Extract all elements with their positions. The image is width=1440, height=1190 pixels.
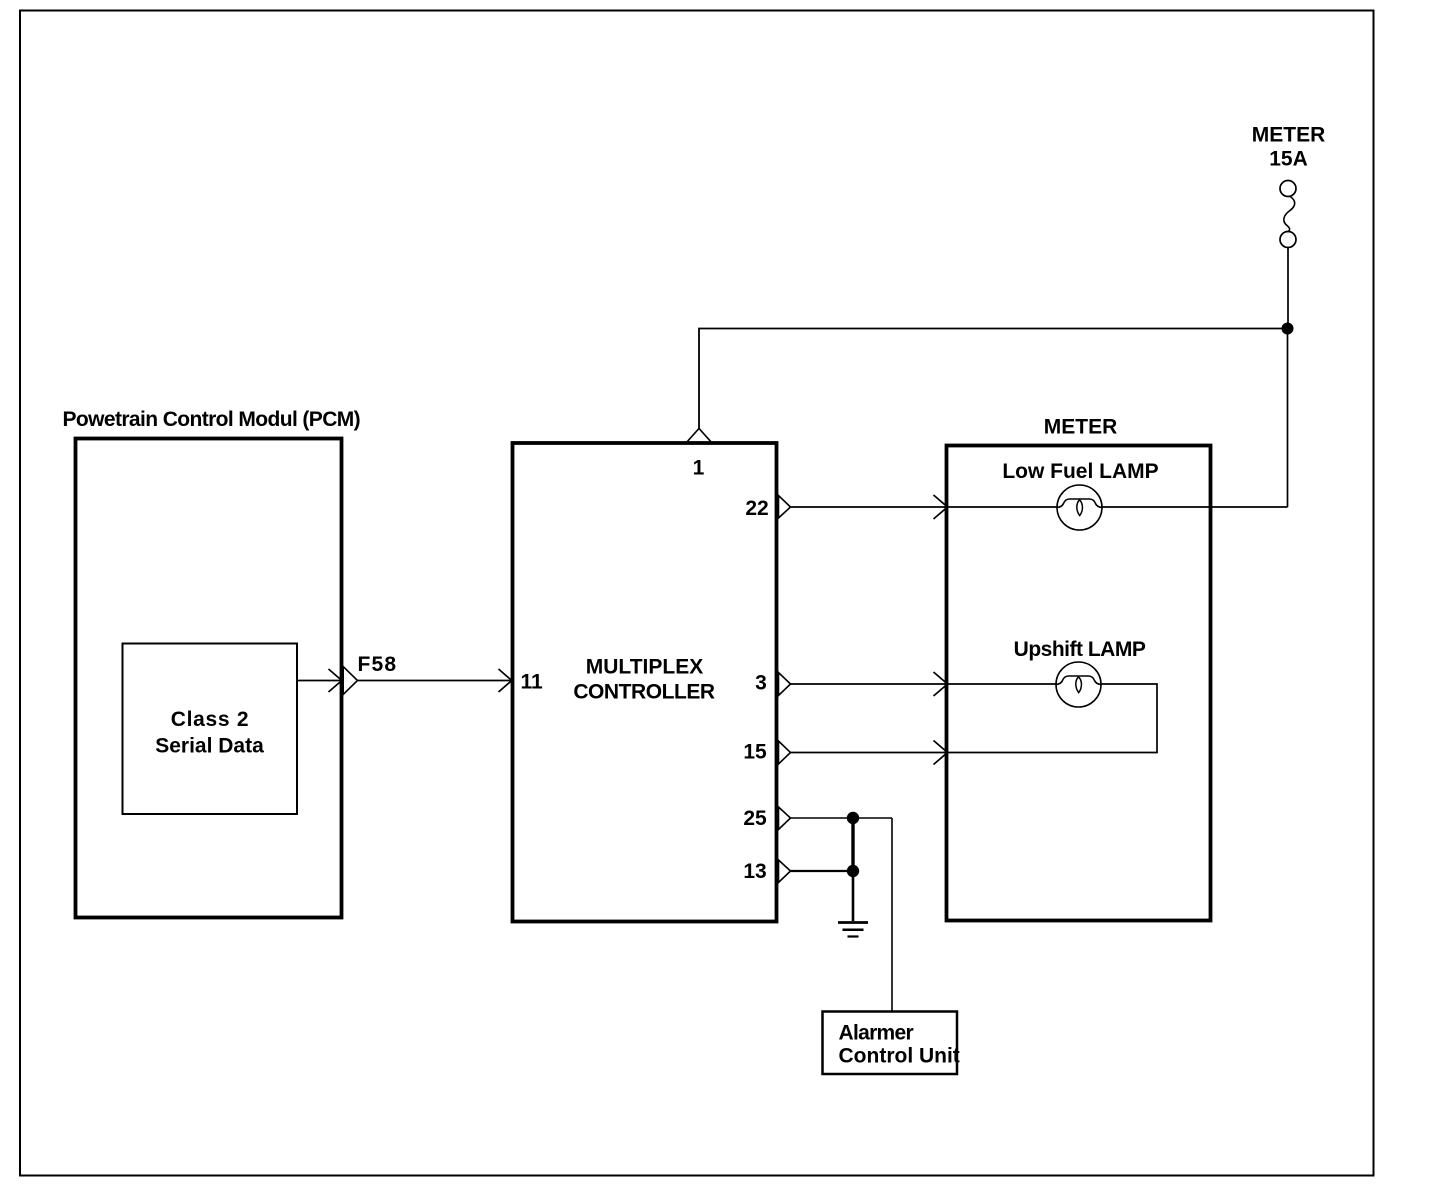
svg-text:15A: 15A <box>1269 148 1308 171</box>
box Alarmer Control Unit <box>823 1012 960 1075</box>
junction dot at fuse wire <box>1282 323 1294 335</box>
arrowhead at PCM right edge <box>329 669 342 692</box>
box: Class 2 Serial Data <box>123 644 298 815</box>
svg-text:F58: F58 <box>358 653 398 676</box>
svg-text:25: 25 <box>743 807 767 830</box>
svg-text:Serial Data: Serial Data <box>155 735 264 758</box>
svg-text:15: 15 <box>743 741 767 764</box>
fuse METER 15A symbol <box>1280 181 1296 248</box>
svg-text:3: 3 <box>755 672 767 695</box>
svg-text:Alarmer: Alarmer <box>839 1022 914 1045</box>
svg-text:METER: METER <box>1044 416 1118 439</box>
wire: upshift lamp loop back to pin 15 <box>948 684 1158 753</box>
svg-text:Powetrain Control Modul (PCM): Powetrain Control Modul (PCM) <box>63 408 361 431</box>
svg-text:MULTIPLEX: MULTIPLEX <box>586 656 703 679</box>
pin 25 connector chevron <box>779 807 791 830</box>
arrowhead at METER edge (low fuel) <box>934 495 948 519</box>
lamp: Upshift LAMP <box>1056 662 1101 707</box>
svg-text:22: 22 <box>745 497 768 520</box>
svg-text:13: 13 <box>743 860 766 883</box>
arrowhead at METER edge (pin 15) <box>934 741 948 765</box>
svg-text:1: 1 <box>693 457 705 480</box>
svg-text:11: 11 <box>521 671 544 694</box>
wire: METER edge to low fuel lamp <box>948 506 1058 508</box>
wire: junction down to low fuel lamp feed <box>1287 329 1289 508</box>
wire: pin 22 to METER low fuel lamp <box>791 506 947 508</box>
pin 15 connector chevron <box>779 741 791 764</box>
wire: pin 25 net down to alarmer control unit <box>891 818 893 1011</box>
wire: low fuel lamp to fuse junction drop <box>1102 506 1288 508</box>
wire: F58 to multiplex controller pin 11 <box>358 680 512 682</box>
ground symbol <box>838 923 868 937</box>
fuse label METER 15A <box>1252 124 1326 171</box>
wire: pin 25 to alarmer drop <box>791 817 893 819</box>
svg-text:Low Fuel LAMP: Low Fuel LAMP <box>1002 460 1158 483</box>
svg-text:METER: METER <box>1252 124 1326 147</box>
svg-text:Control Unit: Control Unit <box>839 1045 960 1068</box>
junction dot pin 25 <box>847 812 859 824</box>
junction dot pin 13 <box>847 865 859 877</box>
wire: junction 25 to junction 13 <box>851 818 854 871</box>
pin 22 connector chevron <box>779 496 791 519</box>
IC U1: MULTIPLEX CONTROLLER box <box>513 443 777 922</box>
svg-text:Upshift LAMP: Upshift LAMP <box>1014 638 1146 661</box>
pin 3 connector chevron <box>779 673 791 696</box>
arrowhead at multiplex pin 11 <box>499 669 512 692</box>
wire: METER edge to upshift lamp <box>948 683 1057 685</box>
wire: fuse to junction <box>1287 248 1289 329</box>
wire: junction 13 down to ground <box>852 871 855 921</box>
box METER <box>947 446 1211 921</box>
wire: pin 1 up and across to fuse junction <box>699 329 1288 429</box>
arrowhead at METER edge (pin 3) <box>934 672 948 696</box>
svg-text:Class 2: Class 2 <box>171 708 249 731</box>
box PCM: Powertrain Control Module <box>76 439 342 918</box>
pin 13 connector chevron <box>779 860 791 883</box>
lamp: Low Fuel LAMP <box>1057 485 1102 530</box>
wire: pin 13 to junction <box>791 870 854 872</box>
connector chevron on PCM right edge <box>343 667 357 695</box>
svg-text:CONTROLLER: CONTROLLER <box>573 681 715 704</box>
wire: Class 2 serial data output to PCM edge <box>297 680 341 682</box>
pin 1 connector chevron on top edge <box>686 429 712 444</box>
wire: pin 3 to METER upshift lamp <box>791 683 947 685</box>
wire: pin 15 to METER edge <box>791 752 947 754</box>
